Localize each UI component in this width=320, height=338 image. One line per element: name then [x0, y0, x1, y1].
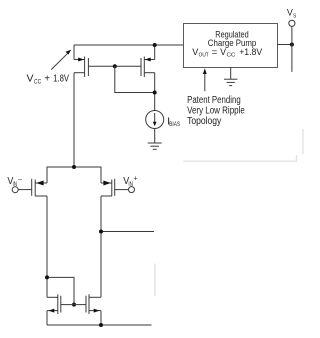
- wire first stage output: [101, 231, 154, 233]
- svg-text:+: +: [44, 74, 50, 85]
- wire M5 source to bottom rail: [46, 311, 48, 325]
- terminal VIN-: [12, 187, 18, 193]
- node VS junction: [290, 43, 294, 47]
- wire faint output continuation: [154, 264, 156, 297]
- node tail junction: [72, 165, 76, 169]
- wire bottom rail: [47, 324, 152, 326]
- wire charge pump output to VS: [277, 44, 292, 46]
- transistor M1 (top-left PMOS current mirror output): [74, 57, 115, 78]
- wire VS vertical: [291, 27, 293, 72]
- svg-text:+: +: [134, 175, 138, 182]
- wire diode connection gate to M2 drain: [115, 66, 155, 92]
- node rail junction at M2 source: [153, 43, 157, 47]
- wire M6 source to bottom rail: [100, 311, 102, 325]
- wire M1 drain down to tail node: [73, 73, 75, 167]
- wire mirror gate bus: [115, 65, 141, 67]
- svg-text:CC: CC: [227, 53, 236, 59]
- label VIN+: [123, 175, 138, 187]
- node bottom rail junction: [99, 323, 103, 327]
- node NMOS gate junction: [72, 303, 76, 307]
- transistor M5 (bottom-left NMOS diode-connected): [47, 294, 74, 314]
- wire M2 drain to current source: [154, 73, 156, 111]
- svg-text:BIAS: BIAS: [169, 121, 180, 128]
- svg-text:Topology: Topology: [187, 116, 221, 127]
- svg-text:V: V: [27, 74, 34, 85]
- wire top supply rail: [74, 44, 183, 46]
- node output junction: [99, 230, 103, 234]
- ground (below charge pump): [224, 67, 237, 86]
- svg-text:V: V: [220, 47, 226, 57]
- svg-text:V: V: [192, 47, 198, 57]
- svg-text:V: V: [287, 7, 293, 17]
- current source IBIAS: [146, 111, 164, 129]
- ground (below IBIAS): [148, 143, 162, 149]
- block U1 regulated charge pump: [184, 24, 278, 68]
- svg-text:Very Low Ripple: Very Low Ripple: [187, 106, 245, 117]
- svg-text:S: S: [293, 13, 296, 19]
- wire M4 drain down: [100, 196, 102, 297]
- svg-text:IN: IN: [13, 181, 18, 188]
- wire tail of differential pair: [47, 167, 101, 183]
- terminal VIN+: [129, 187, 135, 193]
- annotation arrow to charge pump: [203, 68, 207, 91]
- svg-text:Patent Pending: Patent Pending: [187, 95, 241, 106]
- annotation arrow VCC to rail: [51, 50, 71, 70]
- label VCC + 1.8V: [27, 74, 70, 86]
- transistor M6 (bottom-right NMOS mirror): [74, 294, 101, 314]
- svg-text:OUT: OUT: [199, 53, 210, 59]
- node M2 drain / gate link junction: [153, 91, 157, 95]
- terminal VS: [289, 20, 295, 26]
- transistor M3 (input PMOS VIN-): [18, 179, 47, 197]
- label VS: [287, 7, 297, 19]
- svg-text:−: −: [18, 177, 23, 184]
- svg-text:IN: IN: [128, 181, 133, 188]
- wire IBIAS to ground: [154, 129, 156, 143]
- label IBIAS: [167, 117, 180, 128]
- svg-text:=: =: [212, 47, 218, 57]
- svg-text:1.8V: 1.8V: [53, 74, 69, 85]
- wire faint feedback vertical right: [302, 129, 304, 154]
- label VIN-: [7, 176, 22, 188]
- node mirror gate junction: [113, 64, 117, 68]
- label charge pump line 3: [192, 47, 262, 59]
- wire M1 source to rail: [73, 45, 75, 60]
- transistor M4 (input PMOS VIN+): [101, 179, 129, 197]
- wire M2 source to rail: [154, 45, 156, 60]
- wire M3 drain down: [46, 196, 48, 297]
- wire faint corner horizontal: [183, 155, 296, 161]
- svg-text:+1.8V: +1.8V: [239, 47, 262, 57]
- node M3 drain junction: [45, 275, 49, 279]
- svg-text:CC: CC: [34, 78, 42, 85]
- transistor M2 (top-right diode-connected PMOS): [141, 57, 155, 78]
- wire mirror gate link: [47, 277, 74, 304]
